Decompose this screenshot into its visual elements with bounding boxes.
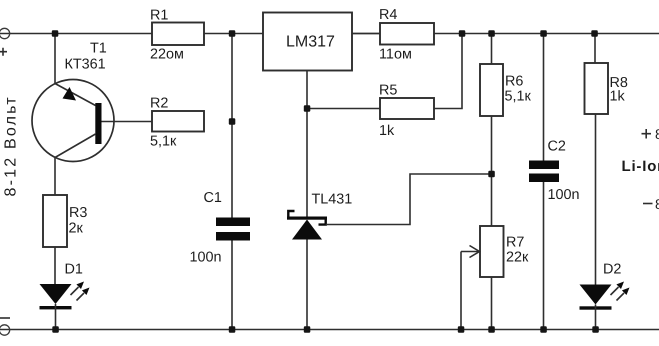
resistor R4 — [380, 23, 434, 45]
node bottom TL431 — [304, 326, 311, 333]
svg-text:R2: R2 — [150, 96, 168, 112]
wire top rail — [0, 33, 659, 35]
LED D1 arrows — [71, 282, 90, 301]
svg-text:1k: 1k — [610, 89, 626, 105]
label battery plus — [642, 126, 659, 142]
wire LM317 adj vertical — [306, 71, 308, 217]
svg-text:D1: D1 — [65, 262, 83, 278]
wire R6 top — [491, 34, 493, 65]
svg-text:11ом: 11ом — [379, 47, 412, 63]
transistor T1 emitter arrow — [63, 87, 77, 101]
svg-text:8: 8 — [655, 126, 659, 142]
svg-text:5,1к: 5,1к — [150, 134, 177, 150]
node top R4R5 — [459, 30, 466, 37]
svg-text:LM317: LM317 — [286, 34, 335, 51]
resistor R2 — [152, 111, 204, 132]
wire emitter vertical — [54, 34, 56, 84]
node bottom R7 — [488, 326, 495, 333]
svg-text:T1: T1 — [90, 41, 107, 57]
node top R6 — [488, 30, 495, 37]
wire R8 to D2 — [595, 114, 597, 285]
node top R8 — [591, 30, 598, 37]
svg-text:100n: 100n — [190, 250, 222, 266]
wire C2 top — [543, 34, 545, 161]
node bottom D1 — [52, 326, 59, 333]
resistor R5 — [380, 98, 434, 119]
node bottom wiper — [458, 326, 465, 333]
wire LM317 out to R4 — [352, 33, 380, 35]
svg-text:C1: C1 — [204, 190, 222, 206]
regulator TL431 — [287, 192, 352, 240]
node bottom D2 — [592, 326, 599, 333]
svg-text:КТ361: КТ361 — [65, 57, 106, 73]
transistor T1 base bar — [95, 103, 101, 144]
op-amp U1 LM317 box — [263, 13, 352, 71]
capacitor C2 — [529, 139, 580, 204]
wire C1 branch vertical upper — [231, 34, 233, 218]
terminal input - — [0, 318, 10, 335]
svg-text:2к: 2к — [69, 221, 84, 237]
node bottom C1 — [229, 326, 236, 333]
LED D2 — [580, 262, 622, 330]
resistor R8 — [585, 63, 609, 114]
svg-text:D2: D2 — [603, 262, 621, 278]
wire collector vertical — [54, 158, 56, 196]
wire TL431 reference — [326, 174, 492, 225]
node LM317 adj R5 — [304, 105, 311, 112]
transistor T1 emitter diagonal — [55, 84, 96, 106]
node top C2 — [540, 30, 547, 37]
svg-text:C2: C2 — [548, 139, 566, 155]
svg-text:R5: R5 — [379, 83, 397, 99]
svg-text:R1: R1 — [150, 8, 168, 24]
capacitor C1 — [190, 190, 251, 266]
svg-text:R6: R6 — [505, 74, 523, 90]
wire C2 bottom — [543, 182, 545, 330]
svg-text:5,1к: 5,1к — [505, 89, 532, 105]
wire R7 top — [491, 174, 493, 226]
svg-text:8: 8 — [655, 196, 659, 212]
svg-text:Li-Ion: Li-Ion — [622, 158, 659, 175]
terminal input + — [0, 28, 10, 55]
svg-text:R4: R4 — [379, 7, 397, 23]
wire R6 bottom — [491, 116, 493, 174]
wire R5 row — [307, 34, 462, 109]
wire base to R2 — [102, 121, 153, 123]
wire R7 bottom — [491, 277, 493, 330]
resistor R1 — [152, 23, 204, 46]
svg-text:R3: R3 — [69, 205, 87, 221]
svg-text:R7: R7 — [506, 235, 524, 251]
wire R8 top — [594, 34, 596, 64]
LED D2 arrows — [611, 282, 630, 301]
wire bottom rail — [0, 329, 659, 331]
wire C1 to bottom rail — [231, 241, 233, 330]
label battery minus — [643, 196, 659, 212]
transistor Q1 circle — [32, 80, 114, 162]
svg-text:1k: 1k — [379, 123, 395, 139]
node top T1 — [52, 30, 59, 37]
transistor T1 collector diagonal — [55, 134, 96, 158]
resistor R3 — [43, 195, 67, 247]
svg-text:22ом: 22ом — [150, 47, 184, 63]
wire TL431 anode to bottom rail — [306, 240, 308, 330]
svg-text:TL431: TL431 — [312, 192, 353, 208]
resistor R6 — [480, 64, 503, 116]
potentiometer R7 — [461, 226, 529, 330]
node bottom C2 — [540, 326, 547, 333]
svg-text:8-12 Вольт: 8-12 Вольт — [3, 95, 20, 196]
node R6 R7 ref — [488, 171, 495, 178]
wire R3 to D1 — [54, 247, 56, 284]
LED D1 — [40, 262, 83, 330]
svg-text:22к: 22к — [506, 250, 529, 266]
svg-text:100n: 100n — [548, 187, 580, 203]
node R2 C1 — [229, 118, 236, 125]
node top C1 — [229, 30, 236, 37]
